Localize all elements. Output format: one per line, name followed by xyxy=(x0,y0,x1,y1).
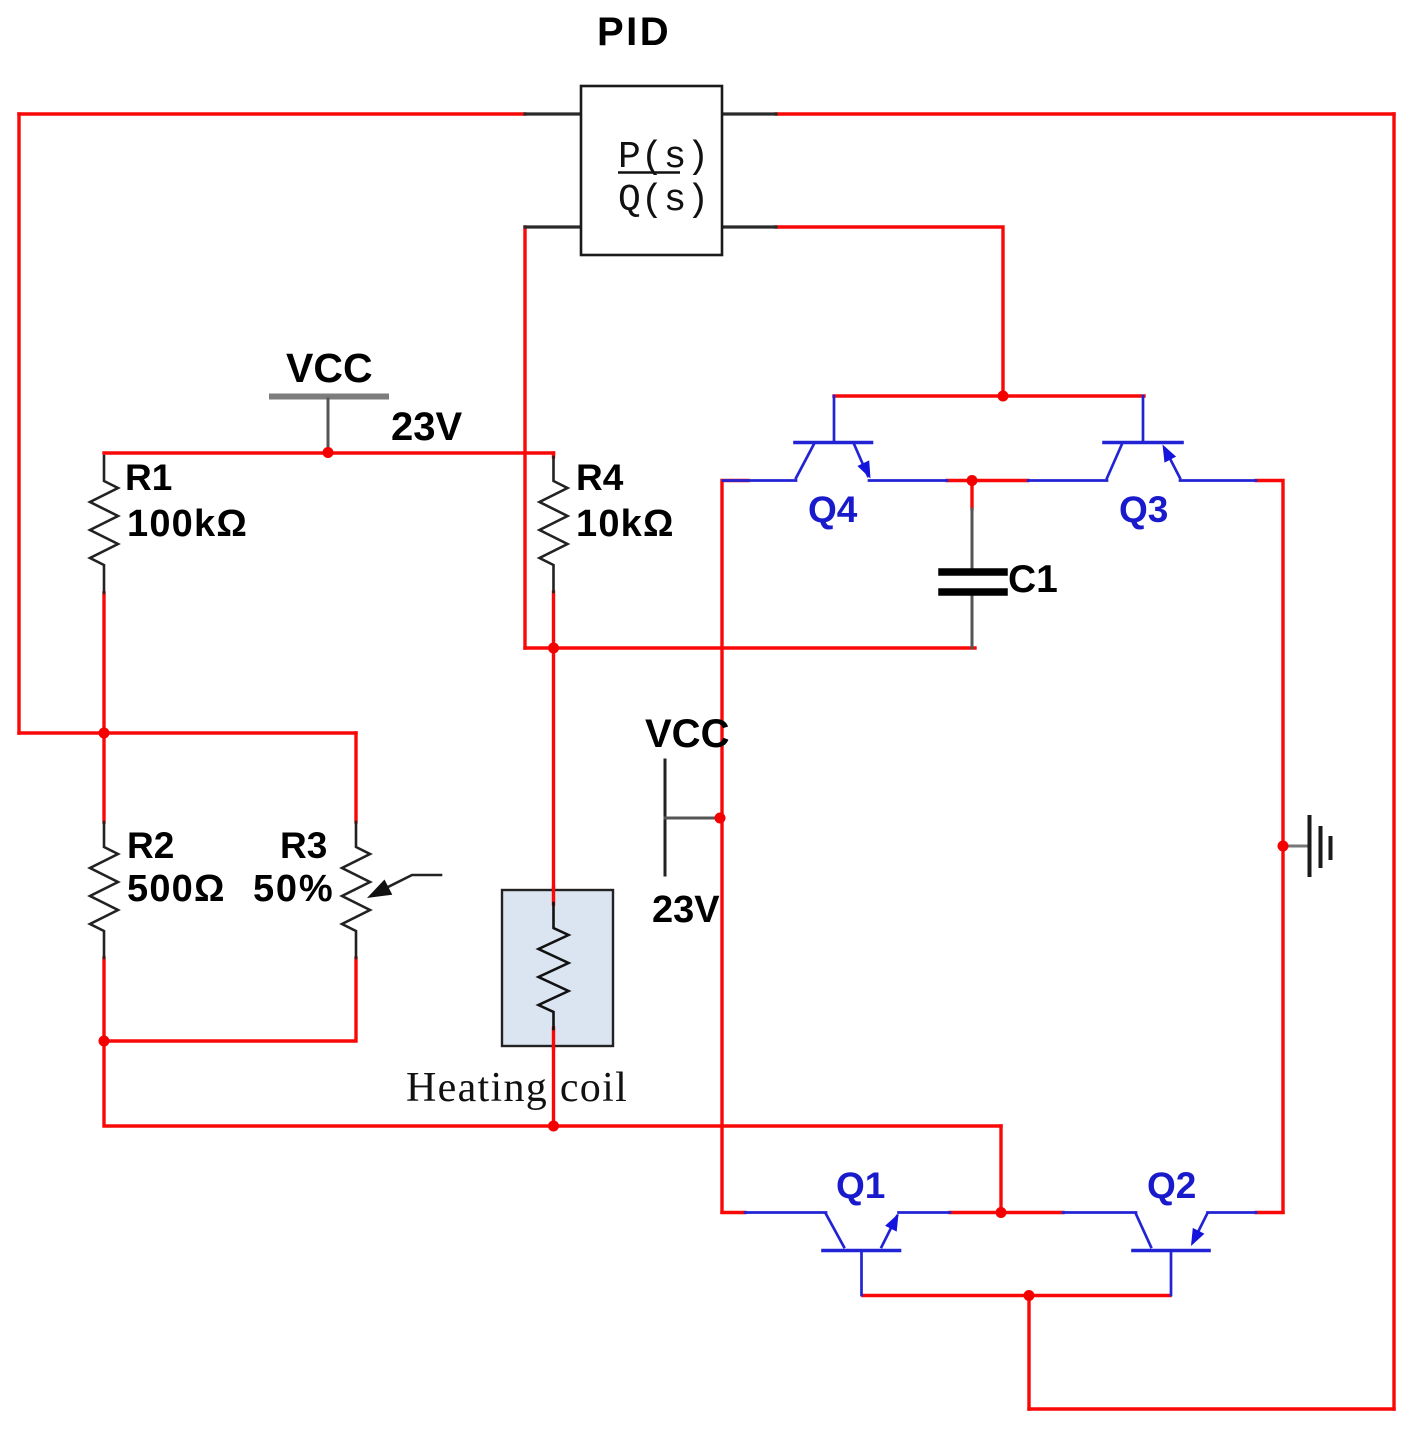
wire R1 bottom to node xyxy=(102,593,105,733)
wire PID bottom-right pin to Q rail xyxy=(776,227,1003,396)
junction node R4 bottom xyxy=(548,643,559,654)
wire right edge vertical xyxy=(1392,114,1395,1409)
svg-text:500Ω: 500Ω xyxy=(127,868,226,910)
supply VCC top symbol xyxy=(272,394,386,400)
wire Q2 right lead red part xyxy=(1256,1211,1283,1214)
svg-text:23V: 23V xyxy=(652,889,720,931)
capacitor C1 plates xyxy=(942,572,1004,592)
wire mid horizontal R4/C1 xyxy=(525,646,975,649)
wire R2 bottom xyxy=(102,958,105,1041)
svg-text:Q2: Q2 xyxy=(1147,1165,1196,1206)
fraction bar xyxy=(618,171,680,174)
wire Q1 left lead red part xyxy=(722,1211,745,1214)
svg-text:100kΩ: 100kΩ xyxy=(127,503,248,545)
wire R3 bottom to node xyxy=(104,958,356,1041)
ground symbol xyxy=(1283,845,1307,848)
PID block U1 xyxy=(581,86,722,255)
wire R4 bottom xyxy=(552,592,555,648)
svg-text:Heating coil: Heating coil xyxy=(406,1065,628,1111)
svg-text:VCC: VCC xyxy=(645,712,729,756)
transistor Q1 xyxy=(745,1213,950,1296)
junction node Q1Q2 rail xyxy=(996,1207,1007,1218)
svg-text:Q1: Q1 xyxy=(836,1165,885,1206)
svg-text:50%: 50% xyxy=(253,868,334,910)
wire heater red inside box bottom xyxy=(552,1028,555,1048)
svg-text:C1: C1 xyxy=(1008,558,1058,601)
junction node VCC rail xyxy=(323,447,334,458)
junction node R1/R2 xyxy=(99,728,110,739)
wire bottom horizontal drop to Q1Q2 rail xyxy=(999,1126,1002,1212)
heating coil resistor xyxy=(539,903,569,1029)
wire Q4 collector down left column xyxy=(722,481,748,1213)
svg-text:R3: R3 xyxy=(280,825,327,866)
wire R2 top xyxy=(102,733,105,822)
svg-text:PID: PID xyxy=(597,10,671,54)
transistor Q2 xyxy=(1063,1213,1256,1296)
wire C1 top red xyxy=(970,481,973,510)
junction node Q1Q2 base rail xyxy=(1024,1290,1035,1301)
junction node Q3Q4 rail xyxy=(998,391,1009,402)
potentiometer R3 wiper arrow xyxy=(386,875,441,888)
transistor Q4 xyxy=(723,396,947,481)
wire R4 top stub xyxy=(552,453,555,457)
wire Q1Q2 base rail xyxy=(863,1294,1170,1297)
svg-text:VCC: VCC xyxy=(286,345,373,391)
svg-text:Q3: Q3 xyxy=(1119,489,1168,530)
heating coil box xyxy=(502,890,613,1046)
svg-text:10kΩ: 10kΩ xyxy=(576,503,675,545)
wire node R1/R2 horizontal xyxy=(19,731,356,734)
svg-text:Q(s): Q(s) xyxy=(618,179,709,222)
wire bottom-left node down and bottom horizontal xyxy=(104,1041,1001,1126)
wire left edge vertical xyxy=(17,114,20,733)
potentiometer R3 xyxy=(342,822,370,958)
wire heater bottom xyxy=(552,1029,555,1126)
svg-text:23V: 23V xyxy=(391,405,462,449)
svg-text:R4: R4 xyxy=(576,457,624,498)
junction node VCC mid xyxy=(715,813,726,824)
wire Q4-Q3 middle rail red part xyxy=(947,479,1028,482)
junction node R2/R3 bottom xyxy=(99,1036,110,1047)
junction node heater bottom xyxy=(548,1121,559,1132)
wire bottom edge horizontal xyxy=(1029,1407,1394,1410)
resistor R1 xyxy=(90,456,118,593)
svg-text:Q4: Q4 xyxy=(808,489,858,530)
resistor R4 xyxy=(540,457,568,592)
junction node C1 top xyxy=(967,475,978,486)
junction node ground xyxy=(1278,841,1289,852)
wire Q1Q2 base rail drop xyxy=(1027,1295,1030,1409)
wire PID top-right to right edge xyxy=(776,112,1394,115)
capacitor C1 leads xyxy=(971,509,974,648)
wire Q3 emitter to right column xyxy=(1256,481,1283,1213)
wire PID bottom-left pin down xyxy=(523,227,526,648)
transistor Q3 xyxy=(1028,396,1256,481)
wire PID left input to left edge xyxy=(19,112,525,115)
PID box pins xyxy=(525,114,776,227)
wire Q3Q4 top rail xyxy=(834,394,1144,397)
wire Q1Q2 collector rail red part xyxy=(950,1211,1063,1214)
wire R3 top xyxy=(354,733,357,822)
wire heater top xyxy=(552,648,555,903)
svg-text:R1: R1 xyxy=(125,457,172,498)
wire heater red inside box top xyxy=(552,888,555,904)
wire VCC rail xyxy=(104,451,554,454)
svg-text:R2: R2 xyxy=(127,825,174,866)
supply VCC mid symbol xyxy=(664,760,667,875)
resistor R2 xyxy=(90,822,118,958)
